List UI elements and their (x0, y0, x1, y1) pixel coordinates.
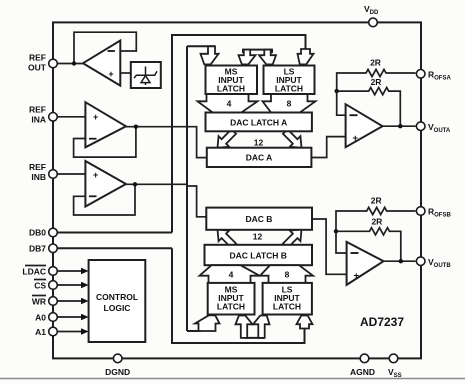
bus arrow into MS input latch B left (195, 315, 220, 331)
fat arrow MS latch B to DAC latch B (200, 265, 260, 283)
DAC latch A (206, 113, 312, 132)
svg-text:INB: INB (31, 172, 46, 182)
control logic box (89, 260, 146, 342)
svg-text:DAC LATCH A: DAC LATCH A (230, 117, 287, 127)
svg-text:OUT: OUT (28, 63, 47, 73)
bus arrow into LS input latch B right (297, 316, 313, 329)
svg-text:LATCH: LATCH (275, 84, 303, 94)
svg-text:12: 12 (253, 232, 263, 242)
resistor 2R feedback B (336, 217, 401, 262)
wire CS to control logic (58, 282, 89, 288)
svg-text:LATCH: LATCH (217, 302, 245, 312)
pin CS (49, 281, 58, 290)
wire op-amp A output to DAC A ref (126, 127, 207, 158)
svg-text:2R: 2R (371, 217, 382, 227)
svg-text:REF: REF (29, 53, 46, 63)
MS input latch B (208, 283, 255, 315)
svg-text:2R: 2R (370, 58, 381, 68)
svg-text:AD7237: AD7237 (360, 315, 404, 329)
fat arrow LS latch A to DAC latch A (263, 94, 316, 113)
op-amp U4 output A (346, 104, 383, 147)
resistor 2R offset A (337, 58, 416, 92)
bandgap reference box (131, 62, 161, 88)
pin ROFSA (416, 70, 425, 79)
svg-text:A1: A1 (35, 327, 46, 337)
pin VOUTA (416, 122, 425, 131)
svg-text:2R: 2R (371, 196, 382, 206)
wire DAC B out to amp B plus (312, 219, 347, 274)
op-amp U5 output B (347, 242, 384, 285)
svg-text:+: + (93, 170, 98, 180)
12-bit arrow B right (280, 224, 307, 251)
op-amp U2 REF INA buffer (85, 102, 126, 147)
svg-text:+: + (93, 112, 98, 122)
wire LDAC to control logic (58, 268, 89, 274)
LS input latch B (263, 283, 312, 315)
fat arrow MS latch A to DAC latch A (198, 94, 258, 113)
fat arrow LS latch B to DAC latch B (260, 265, 313, 283)
svg-text:8: 8 (285, 270, 290, 280)
svg-text:+: + (353, 133, 359, 144)
svg-text:CS: CS (34, 281, 46, 291)
pin A0 (49, 313, 58, 322)
DAC latch B (205, 245, 313, 265)
node feedback tap (72, 61, 76, 65)
12-bit arrow A right (280, 126, 307, 153)
pin REF INA (49, 113, 58, 122)
pin DGND (113, 354, 122, 363)
svg-text:+: + (108, 69, 113, 79)
svg-text:REF: REF (29, 162, 46, 172)
svg-text:CONTROL: CONTROL (96, 292, 138, 302)
svg-text:2R: 2R (371, 77, 382, 87)
svg-text:DAC A: DAC A (246, 153, 273, 163)
wire DB0 to bus (53, 232, 172, 234)
svg-text:+: + (354, 271, 360, 282)
node op-amp B output (133, 182, 137, 186)
pin REF OUT (49, 59, 58, 68)
bus staple bottom (246, 325, 263, 338)
bus inner riser (186, 46, 188, 331)
wire REF OUT to op-amp (53, 63, 83, 65)
svg-text:DAC B: DAC B (246, 214, 273, 224)
wire WR to control logic (58, 298, 89, 304)
svg-text:DAC LATCH B: DAC LATCH B (229, 250, 286, 260)
pin VSS (389, 354, 398, 363)
pin VDD (369, 18, 378, 27)
node amp B inverting net (334, 229, 338, 233)
wire DAC A out to amp A plus (311, 137, 345, 158)
pin AGND (360, 354, 369, 363)
bus inner top rail (187, 45, 215, 47)
bus inner bottom rail (187, 330, 201, 332)
svg-text:4: 4 (229, 270, 234, 280)
wire REF INA to op-amp A (53, 116, 85, 118)
zener diode symbol (134, 67, 157, 86)
svg-text:DGND: DGND (105, 367, 130, 377)
wire op-amp B output to DAC B ref (126, 184, 206, 217)
12-bit arrow B left (212, 224, 239, 251)
chip boundary (53, 22, 421, 358)
bus arrow into MS input latch A right (239, 50, 256, 65)
wire amp B output (384, 260, 416, 262)
pin DB7 (49, 244, 58, 253)
wire A0 to control logic (58, 314, 89, 320)
resistor 2R feedback A (337, 77, 401, 126)
wire DB7 to bus (53, 247, 172, 249)
LS input latch A (264, 66, 315, 95)
DAC A (207, 148, 312, 167)
svg-text:12: 12 (254, 137, 264, 147)
wire op-amp plus to zener box (120, 72, 131, 74)
pin VOUTB (416, 257, 425, 266)
svg-text:4: 4 (227, 99, 232, 109)
node amp B output (399, 259, 403, 263)
MS input latch A (206, 66, 258, 95)
pin ROFSB (416, 207, 425, 216)
node amp A output (398, 124, 402, 128)
wire amp B inverting input (336, 231, 347, 253)
12-bit arrow A left (212, 126, 239, 153)
svg-text:DB0: DB0 (29, 228, 46, 238)
op-amp U3 REF INB buffer (85, 161, 126, 207)
bus arrow into LS input latch B left (253, 316, 270, 338)
wire feedback op-amp B (74, 184, 135, 215)
svg-text:LDAC: LDAC (22, 267, 46, 277)
wire REF INB to op-amp B (53, 173, 85, 175)
bus arrow into LS input latch A right (298, 49, 314, 64)
svg-text:8: 8 (287, 99, 292, 109)
scan artifact line bottom (0, 378, 465, 380)
svg-text:LOGIC: LOGIC (104, 303, 131, 313)
pin WR (49, 297, 58, 306)
bus outer riser down (172, 248, 305, 343)
wire feedback op-amp A (74, 127, 136, 157)
svg-text:LATCH: LATCH (273, 302, 301, 312)
bus outer riser up (172, 35, 306, 233)
resistor 2R offset B (336, 196, 416, 232)
wire A1 to control logic (58, 328, 89, 334)
svg-text:WR: WR (32, 297, 46, 307)
node amp A inverting net (335, 89, 339, 93)
svg-text:INA: INA (31, 115, 46, 125)
pin REF INB (49, 170, 58, 179)
bus arrow into LS input latch A left (259, 50, 276, 65)
pin A1 (49, 327, 58, 336)
svg-text:A0: A0 (35, 313, 46, 323)
bus arrow into MS input latch A left (201, 46, 219, 64)
bus staple top (243, 50, 272, 53)
wire amp A output (383, 125, 416, 127)
svg-text:REF: REF (29, 105, 46, 115)
pin LDAC (49, 267, 58, 276)
pin DB0 (49, 228, 58, 237)
DAC B (206, 208, 312, 230)
wire feedback loop REF OUT amp (74, 32, 136, 63)
svg-text:LATCH: LATCH (217, 84, 245, 94)
svg-text:DB7: DB7 (29, 243, 46, 253)
wire amp A inverting input (337, 91, 346, 115)
svg-text:AGND: AGND (350, 367, 375, 377)
op-amp U1 REF OUT buffer (83, 41, 120, 86)
bus arrow into MS input latch B right (236, 316, 253, 338)
node op-amp A output (134, 125, 138, 129)
